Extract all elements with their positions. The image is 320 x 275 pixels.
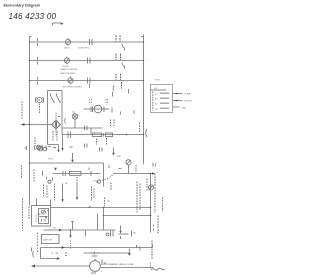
- lamp top marks: [73, 112, 76, 114]
- marks beside aux circle: [46, 146, 51, 150]
- bottom bus b2: [35, 265, 90, 267]
- parens around sensor: [35, 145, 43, 150]
- disconnect blade B: [56, 94, 60, 104]
- lead out 3: [173, 106, 180, 108]
- disconnect blade A: [50, 94, 54, 104]
- marks left column: [33, 170, 35, 182]
- svg-text:4: 4: [52, 252, 54, 255]
- svg-text:Elementary Diagram: Elementary Diagram: [4, 3, 41, 7]
- box inner arrow: [45, 217, 47, 219]
- meter branch wire: [84, 108, 110, 110]
- stub dashes above resistor line: [70, 144, 88, 148]
- svg-text:146 4233 00: 146 4233 00: [9, 12, 57, 21]
- drop arrow right: [113, 148, 115, 154]
- feeder wire B: [61, 91, 63, 135]
- svg-text:S: S: [38, 98, 40, 102]
- contact on heater wire: [68, 132, 71, 139]
- main motor MTR: [90, 261, 101, 272]
- contact on rung 1 left: [37, 38, 39, 46]
- arrow on u3: [59, 229, 62, 232]
- svg-text:48: 48: [65, 183, 68, 185]
- junction dots u2: [103, 215, 105, 217]
- svg-text:RUN CTRL: RUN CTRL: [79, 48, 90, 50]
- relay stem: [128, 165, 130, 174]
- svg-text:MOTOR: MOTOR: [185, 101, 193, 103]
- relay bulb 8b: [148, 185, 153, 190]
- svg-text:4 TB 1: 4 TB 1: [155, 80, 162, 82]
- wire rung 1: [30, 41, 144, 43]
- link dash: [119, 233, 129, 235]
- marks near 137: [137, 245, 141, 251]
- dashed curve: [100, 174, 115, 181]
- drop wire with arrow: [62, 184, 64, 200]
- svg-text:8O: 8O: [96, 182, 99, 184]
- bus wire u3: [44, 229, 116, 231]
- svg-text:NO: NO: [54, 228, 57, 230]
- motor starter M diamond: [52, 120, 61, 129]
- right rail top tick: [141, 35, 144, 37]
- right riser note: [157, 216, 159, 234]
- bleeder wire: [53, 173, 101, 175]
- tap marks rung 2: [122, 63, 125, 69]
- wire rung 2: [30, 60, 144, 62]
- left rail L1: [29, 37, 31, 206]
- tap marks rung 1: [122, 44, 125, 51]
- branch L-wire: [41, 248, 58, 259]
- meter contact left: [91, 107, 93, 113]
- terminal board box: [151, 85, 173, 113]
- contact mark: [132, 231, 136, 237]
- mark above branch: [109, 165, 122, 169]
- stray wire numbers mid right: [112, 89, 135, 115]
- wire rung 3: [30, 80, 144, 82]
- stub above u3: [71, 222, 74, 231]
- labels above heater wire: [110, 120, 112, 128]
- bottom bus b2 right: [101, 267, 154, 269]
- bracket at rail: [146, 129, 147, 137]
- bottom bus b1: [41, 247, 153, 249]
- riser x103: [103, 208, 105, 231]
- sensor label: [34, 138, 36, 146]
- stubs below u3: [85, 231, 87, 237]
- svg-text:START CONTROL: START CONTROL: [61, 68, 79, 71]
- svg-text:1-2: 1-2: [155, 94, 158, 96]
- meter contact right: [104, 107, 108, 113]
- parens around S1: [35, 97, 43, 103]
- second aux circle: [43, 147, 47, 151]
- drop arrow u2: [120, 226, 122, 232]
- junction dot branch: [150, 173, 152, 175]
- terminal column 4: [91, 187, 93, 201]
- svg-text:1CR: 1CR: [117, 156, 122, 158]
- node label left of rail: [21, 102, 23, 119]
- svg-text:3CR HTR CONTROL: 3CR HTR CONTROL: [63, 86, 84, 88]
- contact on rung 2 left: [37, 57, 39, 65]
- terminal column 3: [54, 184, 56, 201]
- branch wire lower: [114, 173, 153, 175]
- dashed stub above motor: [55, 113, 57, 120]
- label cols below motor: [52, 131, 54, 142]
- long note column: [136, 182, 138, 213]
- dashes right end of b2: [150, 263, 152, 269]
- lead out 2: [173, 100, 183, 102]
- terminal column 1: [43, 185, 45, 198]
- sensor bulb: [36, 145, 40, 149]
- crossbar wire: [62, 127, 102, 129]
- relay bulb 8: [126, 160, 131, 165]
- box inner marks: [38, 211, 50, 222]
- small device: [48, 180, 51, 183]
- lower branch wire: [84, 252, 129, 254]
- bracket below rung 3: [112, 86, 115, 91]
- marks right of motor: [102, 260, 107, 264]
- dash col right of relay: [135, 165, 137, 172]
- left rail top tick: [30, 36, 32, 38]
- drop stub with arrow: [70, 231, 72, 236]
- lead out 1: [173, 93, 183, 95]
- svg-text:GND: GND: [182, 107, 187, 109]
- signature squiggle: [151, 268, 165, 270]
- junction dot: [126, 134, 128, 136]
- dashes near right riser: [153, 225, 155, 231]
- small node circle: [97, 180, 100, 183]
- dash col right of riser: [162, 198, 164, 212]
- terminal column 2: [46, 186, 48, 199]
- terminal board top cell: [151, 89, 167, 91]
- heater wire: [63, 134, 144, 136]
- svg-text:FAN CONTROL: FAN CONTROL: [61, 72, 77, 75]
- terminal board side column: [152, 92, 154, 111]
- dash cluster: [56, 253, 68, 256]
- tick between resistors: [102, 133, 104, 137]
- right riser wire: [150, 174, 152, 233]
- dash cols below resistors: [96, 139, 98, 145]
- svg-text:3-4: 3-4: [155, 99, 158, 101]
- tap marks rung 3: [121, 82, 123, 89]
- meter A1: [94, 105, 102, 113]
- bus wire u1: [51, 207, 151, 209]
- pilot lamp: [72, 114, 77, 119]
- resistor RES2: [70, 171, 82, 175]
- box inner wire: [40, 216, 48, 218]
- svg-text:NO 4: NO 4: [49, 158, 55, 160]
- drop arrow to bus: [72, 153, 74, 160]
- contact on rung 1 right: [90, 39, 93, 45]
- dashed drop from box: [37, 233, 39, 253]
- box inner rect: [39, 209, 49, 224]
- bottom right vertical note: [151, 241, 153, 259]
- dashed link below S1: [39, 104, 41, 114]
- aux circle: [38, 146, 43, 151]
- svg-text:4: 4: [157, 172, 159, 174]
- lamp stem wire: [74, 119, 76, 128]
- dash col above bus u1: [104, 198, 106, 207]
- label box: [42, 235, 60, 244]
- drop wire with arrow 2: [76, 183, 78, 198]
- svg-text:LIMIT SW: LIMIT SW: [43, 240, 52, 242]
- motor top tick: [94, 259, 96, 261]
- coil 2M: [64, 58, 69, 63]
- dashed drop above meter right: [105, 99, 107, 105]
- wire numbers rung 3: [115, 74, 117, 80]
- svg-text:1M OL: 1M OL: [64, 48, 71, 50]
- right column note: [154, 174, 156, 213]
- dashed stub below motor: [55, 130, 57, 136]
- dash col left of right riser: [146, 179, 148, 191]
- drop wire from heater line: [62, 135, 64, 149]
- marks above motor: [91, 252, 100, 257]
- tick below rung 3: [89, 84, 91, 88]
- coil 3CR: [68, 78, 73, 83]
- terminal row streaks: [160, 93, 169, 108]
- marks above motor: [58, 116, 60, 118]
- small marks: [110, 183, 112, 191]
- svg-text:B-T: B-T: [154, 88, 158, 90]
- box dial: [42, 210, 46, 214]
- small arrow under number: [53, 23, 62, 26]
- svg-text:R TER: R TER: [185, 94, 192, 96]
- tap marks: [100, 148, 103, 152]
- bottom bus b2 arrow head: [31, 265, 35, 268]
- box dashed col: [35, 215, 37, 223]
- rail junction dots: [29, 41, 30, 42]
- arrow on b1: [62, 246, 65, 249]
- riser x97: [97, 214, 99, 231]
- marks below motor: [91, 272, 96, 274]
- dashes right of node: [111, 231, 114, 237]
- dashed drop above meter left: [89, 99, 91, 105]
- small drop arrow: [48, 145, 59, 151]
- marks left of sensor: [25, 146, 27, 150]
- tick right end b1: [152, 245, 154, 248]
- feeder top wire: [48, 90, 63, 92]
- control box: [32, 206, 51, 227]
- svg-text:5-6: 5-6: [155, 104, 158, 106]
- crossbar riser: [90, 128, 92, 135]
- feeder wire A: [47, 91, 49, 145]
- crossbar ticks: [85, 126, 88, 131]
- bracket right of motor: [64, 118, 67, 124]
- svg-text:2M OL: 2M OL: [63, 66, 70, 68]
- right rail L2: [143, 37, 145, 165]
- arrow wire to motor: [24, 124, 52, 126]
- riser wire: [103, 163, 105, 187]
- junction dot heater-rail: [143, 134, 145, 136]
- marks above right riser: [153, 163, 155, 167]
- svg-text:7-8: 7-8: [155, 109, 158, 111]
- wire numbers rung 2: [115, 54, 117, 60]
- ticks after RES2: [89, 168, 91, 177]
- resistor RES1b: [106, 133, 113, 137]
- bus wire u2: [104, 215, 151, 217]
- wire number rung 1: [115, 35, 117, 41]
- small circle node: [106, 233, 109, 236]
- arrow tick on u1: [88, 206, 91, 207]
- contact before RES2: [63, 171, 65, 176]
- contact on rung 3 right: [88, 78, 91, 84]
- switch S1: [37, 97, 42, 102]
- coil 1M: [65, 39, 70, 44]
- contact on rung 2 right: [88, 58, 91, 64]
- contact on rung 3 left: [37, 77, 39, 85]
- box top stubs: [37, 199, 51, 206]
- wire id near rail: [139, 123, 141, 133]
- resistor RES1a: [93, 133, 102, 137]
- dash fringe: [32, 248, 34, 258]
- svg-text:MTR OPERATED VALVE CLOSE: MTR OPERATED VALVE CLOSE: [101, 263, 134, 266]
- box side note 1: [22, 199, 24, 231]
- box side note 2: [28, 207, 30, 219]
- junction dots u1: [103, 207, 105, 209]
- dash col below RES2: [76, 177, 78, 183]
- bus wire mid: [30, 162, 104, 164]
